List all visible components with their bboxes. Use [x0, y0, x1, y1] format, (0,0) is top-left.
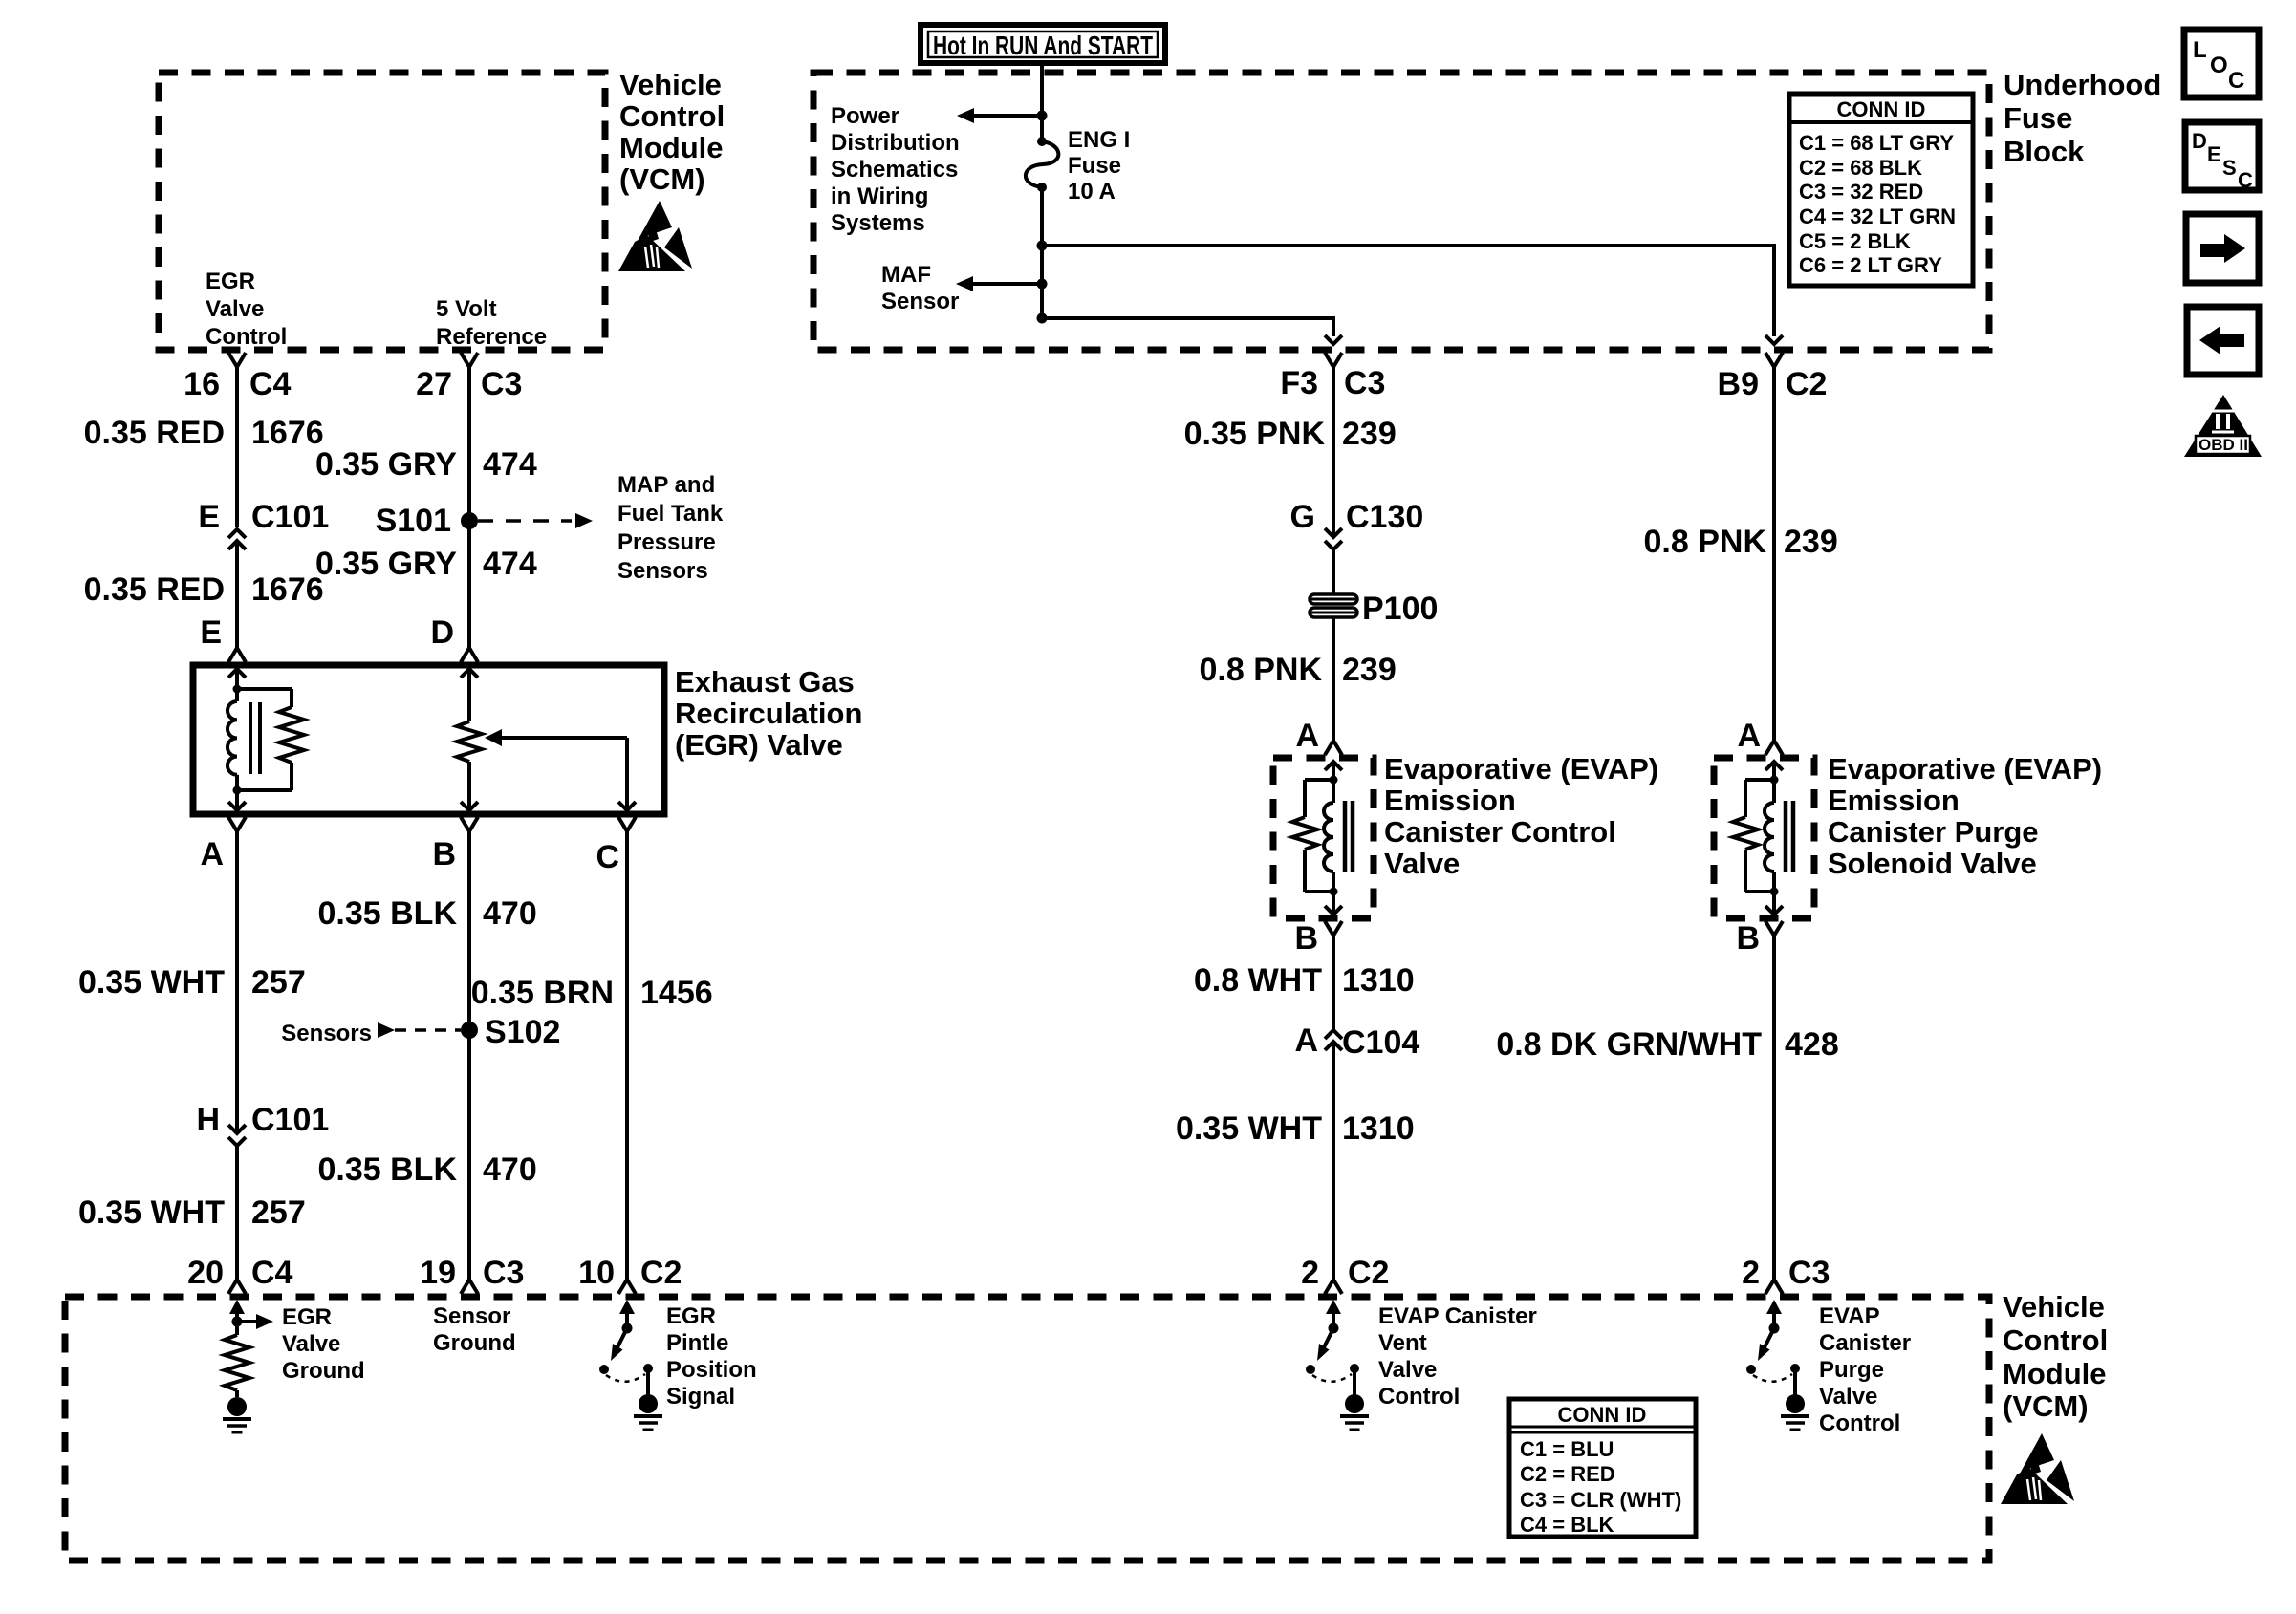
EVAP canister vent valve control switch [1326, 1300, 1341, 1314]
svg-text:S101: S101 [376, 503, 451, 539]
wire 239 PNK (0.8) right [1772, 367, 1776, 741]
wire 1310 WHT (0.8) [1332, 936, 1335, 1030]
svg-text:C3 = CLR (WHT): C3 = CLR (WHT) [1520, 1488, 1681, 1512]
svg-text:Pintle: Pintle [666, 1330, 728, 1356]
svg-text:Exhaust Gas: Exhaust Gas [675, 665, 855, 699]
junction dot power distribution tap [1037, 111, 1048, 121]
svg-text:0.35 PNK: 0.35 PNK [1184, 416, 1326, 452]
svg-text:Position: Position [666, 1357, 757, 1383]
svg-text:O: O [2210, 53, 2228, 78]
svg-text:20: 20 [187, 1255, 224, 1291]
svg-text:Module: Module [2003, 1357, 2107, 1390]
svg-text:ENG I: ENG I [1068, 127, 1130, 153]
connector C104 pin A symbol [1325, 1030, 1342, 1039]
svg-text:Sensors: Sensors [617, 558, 708, 584]
svg-text:257: 257 [251, 1194, 306, 1231]
svg-text:A: A [1294, 1022, 1318, 1059]
svg-text:C1 = BLU: C1 = BLU [1520, 1437, 1614, 1461]
svg-text:C: C [596, 839, 619, 875]
svg-text:S102: S102 [485, 1014, 560, 1050]
svg-text:EVAP Canister: EVAP Canister [1378, 1303, 1537, 1329]
svg-text:10 A: 10 A [1068, 179, 1116, 204]
Underhood Fuse Block box (dashed) [813, 73, 1989, 350]
svg-text:C4 = 32 LT GRN: C4 = 32 LT GRN [1799, 204, 1956, 228]
svg-text:Canister: Canister [1819, 1330, 1911, 1356]
fuse ENG I 10A symbol [1037, 137, 1047, 146]
pin B fork below EVAP control valve [1325, 921, 1342, 936]
svg-text:G: G [1290, 499, 1315, 535]
svg-text:0.8 PNK: 0.8 PNK [1200, 652, 1323, 688]
wire from hot feed down (x=1090) [1040, 63, 1044, 141]
splice S101 [461, 512, 478, 529]
wire 239 PNK (0.35) segment [1332, 367, 1335, 537]
pin B9 C2 connector fork [1765, 353, 1783, 367]
EGR valve ground circuit (pin 20) [229, 1300, 245, 1314]
svg-text:1676: 1676 [251, 415, 324, 451]
svg-text:1310: 1310 [1342, 962, 1415, 999]
wire 470 BLK [467, 831, 471, 1280]
EGR coil suppression resistor [237, 687, 292, 691]
svg-text:Schematics: Schematics [831, 157, 958, 183]
arrow to MAF Sensor [973, 282, 1042, 286]
svg-text:Valve: Valve [1819, 1384, 1877, 1410]
svg-text:239: 239 [1342, 416, 1397, 452]
svg-text:1676: 1676 [251, 571, 324, 608]
pin 27 C3 connector fork [461, 353, 478, 367]
svg-text:Sensor: Sensor [881, 289, 959, 314]
svg-text:474: 474 [483, 546, 537, 582]
svg-text:E: E [200, 614, 222, 651]
svg-text:0.35 WHT: 0.35 WHT [1176, 1110, 1322, 1147]
svg-text:Vehicle: Vehicle [2003, 1290, 2105, 1323]
pin 10 C2 fork [618, 1280, 636, 1294]
svg-text:A: A [1737, 718, 1761, 754]
pin F3 C3 connector fork [1325, 353, 1342, 367]
svg-text:Vent: Vent [1378, 1330, 1427, 1356]
wire fuse to B9/C2 (horizontal + down) [1042, 246, 1774, 336]
Evaporative EVAP Emission Canister Control Valve solenoid [1273, 758, 1374, 918]
svg-text:D: D [2192, 129, 2207, 153]
svg-text:C2 = 68 BLK: C2 = 68 BLK [1799, 156, 1922, 180]
svg-text:0.35 RED: 0.35 RED [84, 415, 225, 451]
svg-text:257: 257 [251, 964, 306, 1001]
svg-text:0.35 BLK: 0.35 BLK [318, 1151, 458, 1188]
svg-text:Block: Block [2004, 135, 2085, 168]
icon DESC [2185, 122, 2259, 190]
pin 16 C4 connector fork [228, 353, 246, 367]
svg-text:Hot In RUN And START: Hot In RUN And START [933, 31, 1153, 60]
Evaporative EVAP Emission Canister Purge Solenoid Valve [1714, 758, 1814, 918]
svg-text:A: A [200, 836, 224, 872]
svg-text:Emission: Emission [1828, 784, 1960, 817]
wire 428 DK GRN/WHT [1772, 936, 1776, 1280]
pin 20 C4 fork [228, 1280, 246, 1294]
svg-text:C3: C3 [483, 1255, 524, 1291]
svg-text:EGR: EGR [206, 269, 255, 294]
svg-text:Valve: Valve [282, 1331, 340, 1357]
svg-text:19: 19 [420, 1255, 456, 1291]
CONN ID table (fuse block) [1789, 94, 1973, 286]
pin 19 C3 fork [461, 1280, 478, 1294]
svg-text:239: 239 [1784, 524, 1838, 560]
svg-text:Underhood: Underhood [2004, 68, 2161, 101]
svg-text:0.35 GRY: 0.35 GRY [315, 446, 457, 483]
svg-text:B: B [432, 836, 456, 872]
svg-text:470: 470 [483, 1151, 537, 1188]
svg-text:Control: Control [2003, 1323, 2108, 1357]
svg-text:470: 470 [483, 895, 537, 932]
svg-text:C6 = 2 LT GRY: C6 = 2 LT GRY [1799, 253, 1942, 277]
wire 257 WHT lower [235, 1146, 239, 1280]
svg-text:Ground: Ground [282, 1358, 365, 1384]
svg-text:0.35 GRY: 0.35 GRY [315, 546, 457, 582]
svg-text:2: 2 [1742, 1255, 1760, 1291]
svg-text:C2: C2 [1786, 366, 1827, 402]
wire 1456 BRN [625, 831, 629, 1280]
svg-text:F3: F3 [1280, 365, 1318, 401]
EVAP canister purge valve control switch [1766, 1300, 1782, 1314]
icon OBD II triangle [2184, 395, 2262, 457]
ESD sensitivity symbol (top VCM) [618, 201, 692, 271]
svg-text:Fuel Tank: Fuel Tank [617, 501, 724, 527]
svg-text:10: 10 [578, 1255, 615, 1291]
CONN ID table (bottom VCM) [1509, 1399, 1696, 1537]
svg-text:Signal: Signal [666, 1384, 735, 1410]
svg-text:1456: 1456 [640, 975, 713, 1011]
svg-text:C4: C4 [249, 366, 292, 402]
icon LOC [2184, 30, 2259, 97]
svg-text:C2 = RED: C2 = RED [1520, 1462, 1615, 1486]
svg-text:Recirculation: Recirculation [675, 697, 862, 730]
svg-text:Distribution: Distribution [831, 130, 960, 156]
svg-text:MAP and: MAP and [617, 472, 715, 498]
grommet P100 symbol [1310, 594, 1357, 604]
svg-text:27: 27 [416, 366, 452, 402]
wire 1676 RED upper segment [235, 367, 239, 527]
svg-text:0.35 BLK: 0.35 BLK [318, 895, 458, 932]
pin 2 C3 fork [1765, 1280, 1783, 1294]
svg-text:(VCM): (VCM) [619, 162, 705, 196]
svg-text:C104: C104 [1342, 1024, 1419, 1061]
svg-text:C3 = 32 RED: C3 = 32 RED [1799, 180, 1923, 204]
svg-text:Canister Purge: Canister Purge [1828, 815, 2039, 849]
svg-text:Sensor: Sensor [433, 1303, 510, 1329]
svg-text:Evaporative (EVAP): Evaporative (EVAP) [1828, 752, 2102, 785]
dashed arrow Sensors to S102 [378, 1022, 395, 1038]
svg-text:0.8 DK GRN/WHT: 0.8 DK GRN/WHT [1496, 1026, 1762, 1063]
svg-text:Vehicle: Vehicle [619, 68, 722, 101]
svg-text:C5 = 2 BLK: C5 = 2 BLK [1799, 229, 1911, 253]
svg-text:Canister Control: Canister Control [1384, 815, 1616, 849]
svg-text:Ground: Ground [433, 1330, 516, 1356]
svg-text:Evaporative (EVAP): Evaporative (EVAP) [1384, 752, 1658, 785]
svg-text:Pressure: Pressure [617, 529, 716, 555]
svg-text:C101: C101 [251, 1102, 329, 1138]
VCM module box (bottom, dashed) [65, 1297, 1989, 1560]
svg-text:Power: Power [831, 103, 899, 129]
wire below fuse [1040, 187, 1044, 318]
svg-text:Valve: Valve [206, 296, 264, 322]
ESD sensitivity symbol (bottom VCM) [2001, 1433, 2074, 1504]
svg-text:C4 = BLK: C4 = BLK [1520, 1513, 1614, 1537]
svg-text:in Wiring: in Wiring [831, 183, 928, 209]
svg-text:OBD II: OBD II [2199, 436, 2248, 454]
junction dot MAF sensor tap [1037, 279, 1048, 290]
svg-text:0.8 WHT: 0.8 WHT [1194, 962, 1322, 999]
svg-text:Control: Control [206, 324, 287, 350]
svg-text:2: 2 [1301, 1255, 1319, 1291]
svg-text:C3: C3 [481, 366, 522, 402]
pin D fork at EGR valve [461, 648, 478, 662]
svg-text:(VCM): (VCM) [2003, 1389, 2089, 1423]
svg-text:Module: Module [619, 131, 724, 164]
svg-text:E: E [2207, 142, 2221, 166]
svg-text:Control: Control [1819, 1410, 1900, 1436]
svg-text:C: C [2228, 68, 2244, 94]
icon arrow right [2186, 214, 2259, 283]
svg-text:5 Volt: 5 Volt [436, 296, 497, 322]
svg-text:L: L [2193, 37, 2207, 63]
svg-text:0.35 WHT: 0.35 WHT [78, 1194, 225, 1231]
svg-text:428: 428 [1785, 1026, 1839, 1063]
wire fuse to F3/C3 (horizontal + down) [1042, 318, 1333, 336]
pin A fork EVAP control valve [1325, 741, 1342, 755]
svg-text:C2: C2 [1348, 1255, 1389, 1291]
pin B fork below EVAP purge valve [1765, 921, 1783, 936]
splice S102 [461, 1022, 478, 1039]
svg-text:B: B [1736, 920, 1760, 957]
svg-text:B9: B9 [1718, 366, 1759, 402]
Exhaust Gas Recirculation (EGR) Valve box [193, 665, 664, 814]
svg-text:474: 474 [483, 446, 537, 483]
svg-text:0.35 BRN: 0.35 BRN [471, 975, 614, 1011]
EGR solenoid coil branch (pin E-A) [228, 669, 246, 678]
svg-text:C: C [2238, 168, 2253, 192]
svg-text:C130: C130 [1346, 499, 1423, 535]
svg-text:EVAP: EVAP [1819, 1303, 1880, 1329]
svg-text:C4: C4 [251, 1255, 293, 1291]
svg-text:0.35 WHT: 0.35 WHT [78, 964, 225, 1001]
svg-text:Control: Control [619, 99, 725, 133]
wire 1310 WHT (0.35) [1332, 1042, 1335, 1280]
svg-text:MAF: MAF [881, 262, 931, 288]
svg-text:CONN ID: CONN ID [1558, 1403, 1647, 1427]
junction dot to B9 feed [1037, 241, 1048, 251]
arrow to Power Distribution Schematics [974, 114, 1042, 118]
svg-text:239: 239 [1342, 652, 1397, 688]
svg-text:A: A [1295, 718, 1319, 754]
EGR pintle position potentiometer (pin D-B) [461, 669, 478, 678]
wire to grommet P100 [1332, 549, 1335, 594]
power feed box Hot In RUN And START [921, 25, 1165, 63]
pin 2 C2 fork [1325, 1280, 1342, 1294]
svg-text:C101: C101 [251, 499, 329, 535]
junction dot to F3 feed [1037, 313, 1048, 324]
svg-text:C1 = 68 LT GRY: C1 = 68 LT GRY [1799, 131, 1954, 155]
svg-text:S: S [2222, 156, 2237, 180]
wire 257 WHT upper [235, 831, 239, 1133]
connector C130 pin G symbol [1325, 528, 1342, 537]
svg-text:H: H [196, 1102, 220, 1138]
connector C101 pin H symbol [228, 1125, 246, 1133]
svg-text:16: 16 [184, 366, 220, 402]
connector C101 pin E symbol [228, 529, 246, 538]
svg-text:Solenoid Valve: Solenoid Valve [1828, 847, 2037, 880]
svg-text:D: D [430, 614, 454, 651]
svg-text:B: B [1294, 920, 1318, 957]
pin E fork at EGR valve [228, 648, 246, 662]
wire 239 PNK (0.8) segment [1332, 617, 1335, 741]
svg-text:Valve: Valve [1378, 1357, 1437, 1383]
svg-text:EGR: EGR [282, 1304, 332, 1330]
svg-text:E: E [198, 499, 220, 535]
wire 474 GRY segment [467, 367, 471, 648]
EGR potentiometer wiper to pin C [485, 729, 502, 746]
pin C fork below EGR valve [618, 817, 636, 831]
svg-text:Valve: Valve [1384, 847, 1460, 880]
svg-text:Emission: Emission [1384, 784, 1516, 817]
svg-text:0.35 RED: 0.35 RED [84, 571, 225, 608]
svg-text:Purge: Purge [1819, 1357, 1884, 1383]
icon arrow left [2187, 307, 2259, 375]
svg-text:P100: P100 [1362, 591, 1438, 627]
svg-text:0.8 PNK: 0.8 PNK [1644, 524, 1767, 560]
svg-text:Sensors: Sensors [281, 1021, 372, 1046]
dashed arrow S101 to MAP sensors [478, 519, 572, 523]
svg-text:Control: Control [1378, 1384, 1460, 1410]
svg-text:C3: C3 [1788, 1255, 1830, 1291]
svg-text:Systems: Systems [831, 210, 925, 236]
svg-text:CONN ID: CONN ID [1837, 97, 1926, 121]
svg-text:EGR: EGR [666, 1303, 716, 1329]
svg-text:Reference: Reference [436, 324, 547, 350]
pin B fork below EGR valve [461, 817, 478, 831]
svg-text:1310: 1310 [1342, 1110, 1415, 1147]
svg-text:(EGR) Valve: (EGR) Valve [675, 728, 843, 762]
VCM module box (top left, dashed) [159, 73, 605, 350]
svg-text:Fuse: Fuse [2004, 101, 2072, 135]
EGR pintle position signal switch [619, 1300, 635, 1314]
svg-text:C3: C3 [1344, 365, 1385, 401]
wire 1676 RED lower segment [235, 541, 239, 648]
svg-text:C2: C2 [640, 1255, 682, 1291]
pin A fork below EGR valve [228, 817, 246, 831]
svg-text:Fuse: Fuse [1068, 153, 1121, 179]
pin A fork EVAP purge valve [1765, 741, 1783, 755]
